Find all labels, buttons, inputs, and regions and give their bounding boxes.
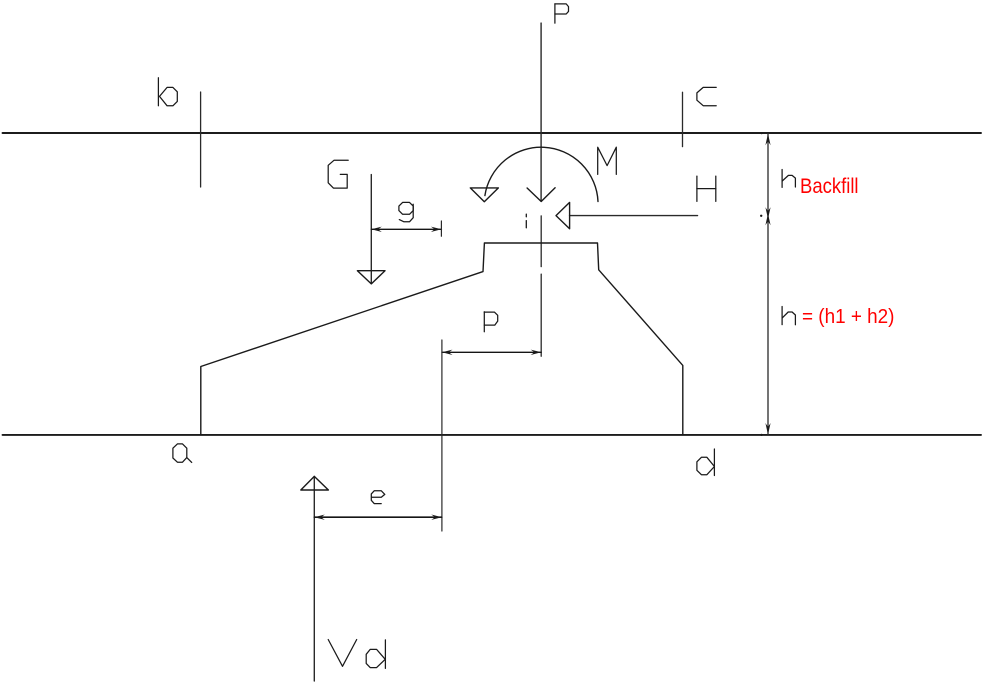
footing base line (bottom horizontal) <box>3 434 982 436</box>
force P line <box>540 23 542 201</box>
force G line <box>370 175 372 284</box>
reaction Vd open arrowhead <box>301 476 329 490</box>
moment M arc <box>485 147 598 201</box>
label d <box>697 449 715 476</box>
dimension g left arrow <box>371 227 382 232</box>
dimension e left arrow <box>314 515 325 520</box>
label c <box>697 87 716 105</box>
label p <box>484 312 497 332</box>
label V <box>328 640 357 667</box>
centreline dash <box>540 274 542 356</box>
dimension g extension tick <box>440 221 442 236</box>
dimension p right arrow <box>531 350 542 355</box>
label P <box>555 4 569 23</box>
ground surface line (top horizontal) <box>3 132 982 134</box>
red annotation = (h1 + h2) <box>802 306 894 329</box>
label H <box>697 176 716 201</box>
height dimension line (right) <box>767 134 769 435</box>
label g <box>399 202 413 221</box>
label a <box>173 444 192 463</box>
dimension e line <box>314 516 442 518</box>
red annotation Backfill <box>800 175 859 199</box>
label M <box>598 147 617 174</box>
node c tick mark <box>682 92 684 146</box>
dimension g right arrow <box>431 227 442 232</box>
extension point dot on surface line <box>761 132 763 134</box>
dimension p line <box>442 351 541 353</box>
bottom arrow <box>765 423 770 435</box>
h backfill top arrow <box>765 134 770 146</box>
dimension p / e extension line <box>441 340 443 531</box>
dimension p left arrow <box>442 350 453 355</box>
junction up arrow <box>765 214 770 226</box>
centreline below load point <box>540 216 542 267</box>
extension point dot on base line <box>760 434 762 436</box>
footing outline <box>201 243 683 434</box>
label e <box>371 491 385 504</box>
reaction Vd line <box>313 476 315 681</box>
label G <box>328 160 348 188</box>
node b tick mark <box>200 92 202 187</box>
label d of Vd <box>366 640 385 669</box>
force H line <box>570 215 698 217</box>
force G open arrowhead <box>357 271 385 284</box>
force H open arrowhead <box>556 202 570 228</box>
label b <box>158 78 177 106</box>
force P open arrowhead <box>527 188 555 202</box>
label h (backfill) <box>782 170 795 188</box>
dimension e right arrow <box>431 515 442 520</box>
moment M arrowhead (open triangle) <box>470 188 498 202</box>
dimension g line <box>371 228 441 230</box>
junction point dot <box>760 215 762 217</box>
label h (total) <box>782 307 795 325</box>
label i <box>525 214 527 228</box>
junction down arrow <box>765 207 770 219</box>
